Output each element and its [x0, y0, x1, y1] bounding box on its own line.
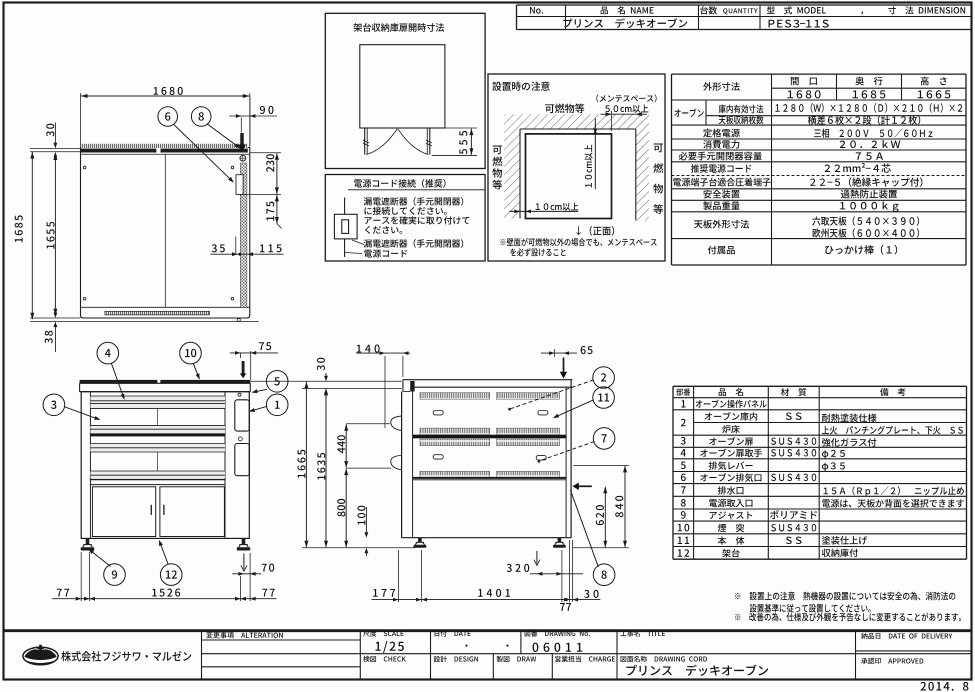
spec table [672, 73, 967, 75]
balloon 9 [104, 564, 126, 586]
rack storage door open dim box [325, 13, 485, 168]
side view [403, 379, 573, 381]
balloon 1 [266, 394, 288, 416]
header name table [517, 4, 972, 6]
legs [86, 539, 90, 545]
front body [81, 392, 249, 539]
dims 230/175 [250, 152, 281, 154]
notes [735, 592, 955, 601]
control panel [235, 400, 250, 431]
company logo [23, 647, 58, 665]
balloon 7 [593, 428, 615, 450]
installation caution box [488, 74, 665, 261]
parts table [673, 385, 967, 387]
balloon 8 [191, 107, 211, 127]
balloon 3 [43, 394, 65, 416]
balloon 11 [593, 387, 615, 409]
balloon 10 [180, 342, 202, 364]
balloon 4 [97, 342, 119, 364]
door handle profiles [391, 416, 402, 431]
side view bottom dims [398, 550, 400, 602]
breaker symbol [344, 198, 346, 215]
cabinet doors [92, 487, 155, 537]
top view body [81, 148, 250, 319]
vertical dims between views [250, 380, 401, 382]
balloon 8 [593, 564, 615, 586]
balloon 5 [266, 371, 288, 393]
balloon 12 [160, 564, 182, 586]
balloon 6 [158, 107, 178, 127]
power cord connection box [325, 175, 485, 262]
front view [80, 380, 158, 383]
top view plan [80, 93, 82, 147]
title block [4, 629, 972, 632]
date stamp 2014.8 [921, 682, 969, 691]
balloon 2 [593, 367, 615, 389]
